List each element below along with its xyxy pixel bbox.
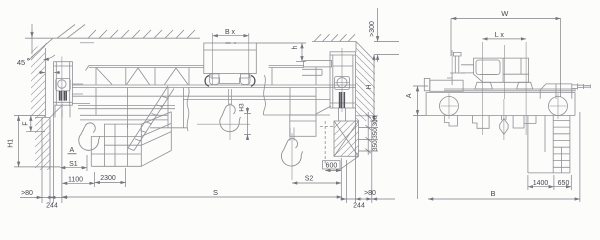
trolley body bbox=[204, 43, 256, 74]
right rail pedestal bbox=[339, 108, 346, 121]
right end carriage bbox=[330, 52, 355, 108]
end view girder rail lines bbox=[444, 89, 576, 91]
left extreme hook bbox=[77, 121, 102, 152]
svg-text:350: 350 bbox=[372, 140, 379, 151]
dimension 650 bbox=[554, 175, 571, 190]
trolley wheel right bbox=[241, 74, 251, 85]
svg-text:>80: >80 bbox=[21, 190, 33, 197]
right wall face bbox=[355, 42, 357, 53]
rail sweep left bbox=[445, 116, 490, 129]
ceiling right line bbox=[312, 41, 356, 43]
left runway corbel bbox=[50, 105, 63, 118]
label 45deg bbox=[17, 58, 29, 67]
end carriage wheel left bbox=[440, 94, 459, 120]
dimension B x bbox=[213, 33, 249, 84]
trolley centerlines bbox=[452, 42, 526, 135]
dimension H bbox=[370, 55, 378, 121]
ceiling right hatch bbox=[314, 34, 355, 41]
svg-text:>300: >300 bbox=[369, 21, 376, 37]
label A detail bbox=[68, 147, 77, 154]
platform truss braces bbox=[96, 68, 189, 86]
girder left break curve bbox=[187, 88, 189, 132]
svg-text:S: S bbox=[213, 188, 218, 197]
dimension 2300 bbox=[95, 168, 126, 187]
trolley wheel left bbox=[210, 74, 220, 85]
aux hook centerline bbox=[291, 133, 293, 180]
ceiling-wall 45 corner bbox=[29, 38, 53, 60]
svg-text:S1: S1 bbox=[69, 161, 78, 168]
right runway corbel bbox=[340, 156, 359, 170]
hidden line 600 ref bbox=[320, 121, 334, 163]
girder right portion bbox=[183, 75, 330, 115]
dimension gt300 bbox=[374, 8, 399, 62]
left rail pedestal bbox=[55, 105, 70, 117]
svg-text:B x: B x bbox=[225, 29, 236, 36]
svg-text:H1: H1 bbox=[8, 139, 15, 148]
bottom left extension lines bbox=[42, 106, 62, 203]
right crane wheel bbox=[335, 48, 350, 112]
right wheel brake bars bbox=[340, 92, 345, 108]
stairway bbox=[128, 86, 174, 151]
dimension B bbox=[428, 112, 580, 202]
svg-text:650: 650 bbox=[558, 180, 570, 187]
end carriage wheel right bbox=[549, 94, 568, 120]
hoist frame box bbox=[461, 58, 529, 82]
hook block side bbox=[500, 99, 508, 140]
dimension h bbox=[296, 43, 306, 62]
walkway platform left bbox=[86, 65, 204, 70]
left wall face bbox=[45, 48, 47, 117]
trolley wheel bases bbox=[475, 82, 533, 89]
dimension F bbox=[26, 116, 45, 132]
svg-text:B: B bbox=[490, 189, 495, 198]
girder left portion bbox=[72, 84, 356, 128]
dimension 1400 bbox=[528, 175, 554, 190]
under frame verticals bbox=[528, 116, 570, 173]
label H3 bbox=[239, 103, 246, 112]
svg-text:350: 350 bbox=[372, 128, 379, 139]
ceiling left hatch bbox=[57, 25, 195, 39]
dimension S1 bbox=[60, 155, 87, 171]
ladder bbox=[553, 116, 570, 173]
trolley wheel flange arcs bbox=[205, 76, 255, 87]
right wall hatch bbox=[356, 42, 375, 122]
right travel drive bbox=[540, 84, 590, 99]
main hook centerlines bbox=[197, 103, 250, 140]
small wall clearance arrows bbox=[39, 72, 60, 74]
svg-text:2300: 2300 bbox=[100, 175, 116, 182]
svg-text:F: F bbox=[22, 121, 29, 125]
svg-text:L x: L x bbox=[495, 32, 505, 39]
svg-text:H: H bbox=[366, 84, 373, 89]
svg-text:h: h bbox=[292, 45, 299, 49]
svg-text:A: A bbox=[69, 147, 74, 154]
svg-text:S2: S2 bbox=[305, 176, 314, 183]
end carriage beam bbox=[426, 93, 575, 116]
svg-text:600: 600 bbox=[326, 163, 338, 170]
dimension S2 bbox=[292, 182, 341, 184]
dimension A right view bbox=[413, 86, 428, 199]
operator cab bbox=[91, 112, 171, 167]
trolley under frame bbox=[211, 74, 249, 84]
svg-text:244: 244 bbox=[46, 203, 58, 210]
dimension 244 right bbox=[340, 198, 395, 200]
dimension W bbox=[451, 19, 561, 98]
ceiling left line bbox=[25, 37, 200, 39]
dimension stack 300-350-350 bbox=[356, 112, 378, 155]
45 angle dimension bbox=[32, 24, 55, 60]
left wall hatch bbox=[31, 42, 46, 117]
svg-text:>80: >80 bbox=[364, 190, 376, 197]
bottom right extension lines bbox=[346, 108, 371, 203]
svg-text:W: W bbox=[501, 9, 509, 18]
trolley top extension line bbox=[80, 42, 306, 44]
left runway beam hatch bbox=[35, 118, 50, 171]
main hook bbox=[219, 89, 242, 133]
left travel drive bbox=[424, 78, 463, 91]
svg-text:H3: H3 bbox=[239, 103, 246, 112]
walkway platform right bbox=[269, 61, 332, 85]
svg-text:1400: 1400 bbox=[533, 180, 549, 187]
aux hook bbox=[280, 128, 304, 168]
svg-text:1100: 1100 bbox=[68, 177, 83, 184]
dimension H3 bbox=[244, 107, 251, 140]
rail sweep right bbox=[513, 116, 536, 129]
left end carriage bbox=[54, 62, 73, 105]
hoist motor bbox=[476, 60, 500, 75]
left crane wheel bbox=[56, 57, 70, 109]
dimension 244 left bbox=[20, 196, 68, 198]
dimension S bbox=[62, 196, 342, 198]
dimension 1100 bbox=[62, 172, 95, 187]
svg-text:45: 45 bbox=[17, 58, 25, 67]
svg-text:244: 244 bbox=[353, 203, 365, 210]
cable post bbox=[447, 52, 465, 85]
svg-text:A: A bbox=[406, 93, 413, 98]
svg-text:300: 300 bbox=[372, 115, 379, 126]
left wheel brake bars bbox=[60, 91, 67, 101]
dimension H1 bbox=[14, 116, 60, 167]
right runway beam section bbox=[334, 121, 359, 156]
dimension Lx bbox=[482, 38, 526, 40]
right wall corner bbox=[356, 42, 375, 62]
dimension 600 bbox=[323, 158, 342, 199]
aux hoist box bbox=[290, 106, 331, 136]
